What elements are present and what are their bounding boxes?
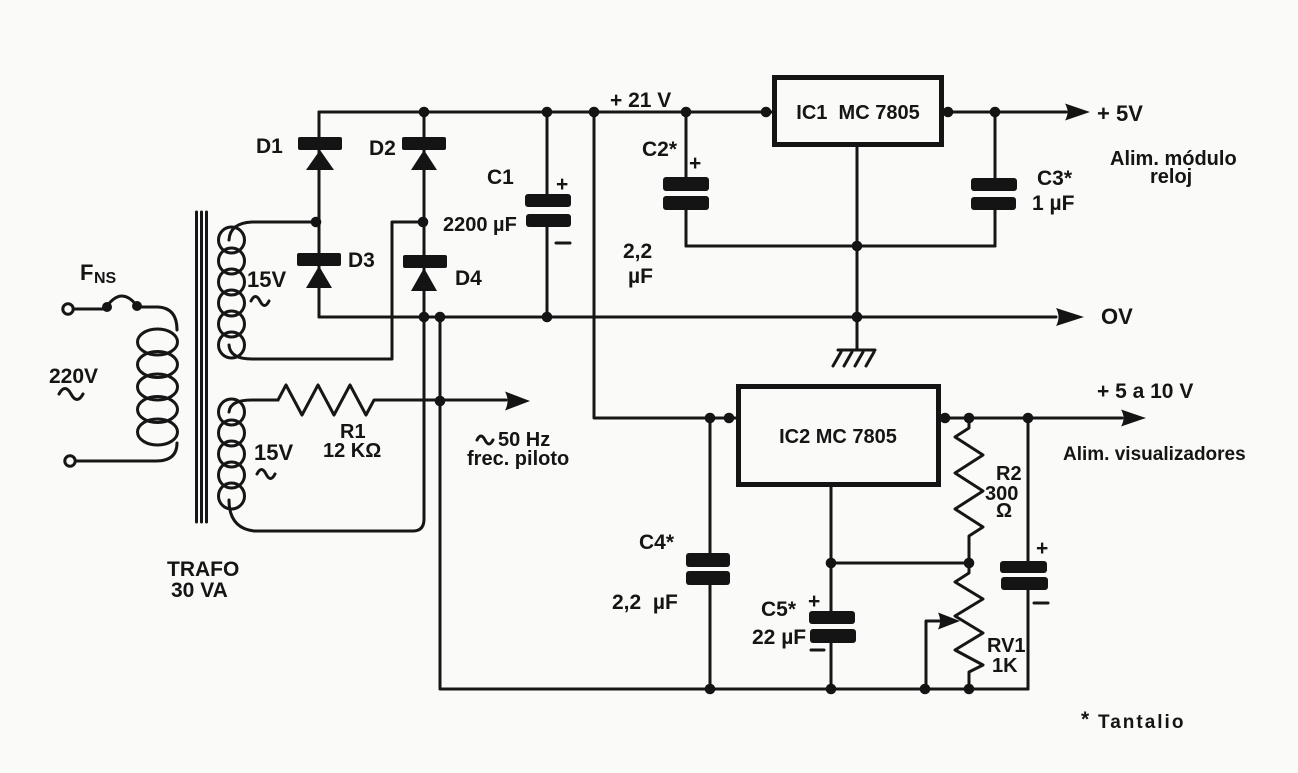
svg-text:frec. piloto: frec. piloto [467,448,569,470]
svg-text:D2: D2 [369,137,396,160]
svg-text:C1: C1 [487,166,514,189]
svg-text:TRAFO: TRAFO [167,558,239,581]
svg-text:15V: 15V [247,267,286,292]
svg-text:15V: 15V [254,440,293,465]
svg-text:Alim. visualizadores: Alim. visualizadores [1063,444,1246,465]
svg-text:1K: 1K [992,655,1018,677]
svg-text:1 µF: 1 µF [1032,192,1075,215]
svg-text:D1: D1 [256,135,283,158]
svg-text:IC1 MC 7805: IC1 MC 7805 [796,102,919,124]
svg-text:+: + [808,590,820,613]
svg-text:IC2 MC 7805: IC2 MC 7805 [779,426,897,448]
svg-text:2200 µF: 2200 µF [443,214,517,236]
svg-text:30 VA: 30 VA [171,579,228,602]
svg-text:OV: OV [1101,304,1133,329]
svg-text:C2*: C2* [642,138,678,161]
svg-text:+: + [1036,537,1048,560]
svg-text:+: + [556,173,568,196]
svg-text:D4: D4 [455,267,482,290]
svg-text:C3*: C3* [1037,167,1073,190]
svg-text:+ 21 V: + 21 V [610,89,671,112]
svg-text:RV1: RV1 [987,635,1026,657]
svg-text:Tantalio: Tantalio [1098,712,1185,733]
svg-text:2,2 µF: 2,2 µF [612,591,678,614]
svg-text:NS: NS [94,270,117,287]
svg-text:*: * [1081,708,1090,731]
svg-text:C5*: C5* [761,598,797,621]
svg-text:R2: R2 [996,463,1022,485]
svg-text:F: F [80,260,93,285]
svg-text:12 KΩ: 12 KΩ [323,440,381,462]
svg-text:Ω: Ω [996,500,1012,522]
svg-text:reloj: reloj [1150,166,1192,188]
svg-text:22 µF: 22 µF [752,626,806,649]
svg-text:220V: 220V [49,365,98,388]
svg-text:C4*: C4* [639,531,675,554]
svg-text:µF: µF [628,265,653,288]
svg-text:+: + [689,152,701,175]
svg-text:2,2: 2,2 [623,240,652,263]
svg-text:+ 5V: + 5V [1097,101,1143,126]
svg-text:+ 5 a 10 V: + 5 a 10 V [1097,380,1193,403]
svg-text:D3: D3 [348,249,375,272]
